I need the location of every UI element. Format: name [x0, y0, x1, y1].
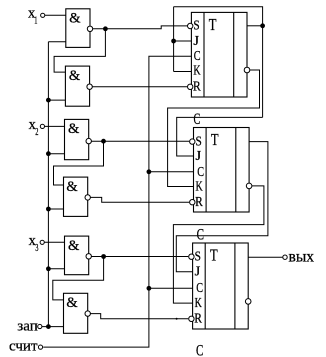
- svg-text:S: S: [193, 19, 199, 34]
- wire FF2 Qbar to FF3 K: [173, 186, 264, 303]
- wire G3 output to FF2 S: [91, 140, 189, 142]
- svg-text:J: J: [195, 265, 201, 280]
- flip-flop U3 box: [193, 243, 249, 329]
- wire G3 output cross-couple to G4 input 1: [54, 141, 104, 185]
- wire write-enable vertical bus: [47, 42, 49, 327]
- svg-text:зап: зап: [17, 318, 38, 334]
- flip-flop U1 S bubble: [188, 23, 193, 28]
- wire G3 input 2 stub: [48, 153, 64, 155]
- svg-text:T: T: [210, 246, 218, 265]
- junction clock at FF3 C: [147, 286, 152, 291]
- gate G2 NAND box: [65, 66, 89, 106]
- wire zap to G6 input 2: [42, 326, 64, 328]
- junction G5 output node: [101, 254, 106, 259]
- wire FF3 Q to output terminal: [248, 256, 282, 258]
- svg-text:1: 1: [34, 16, 37, 27]
- gate G5 output bubble: [86, 254, 91, 259]
- flip-flop U3 Qbar bubble: [245, 299, 251, 305]
- flip-flop U1 box: [191, 12, 247, 97]
- junction on bus at G5 input 2: [46, 266, 51, 271]
- node vyh output terminal: [283, 255, 287, 259]
- flip-flop U3 S bubble: [189, 254, 194, 259]
- wire clock line from schit up to FF1 C: [43, 56, 191, 347]
- flip-flop U2 box: [194, 128, 250, 213]
- junction on bus at zap wire: [46, 324, 51, 329]
- wire FF1 Qbar to FF2 K: [168, 70, 260, 187]
- wire FF1 Q output stub: [247, 25, 263, 27]
- svg-text:3: 3: [35, 243, 38, 254]
- wire FF2 Q to FF3 J: [176, 142, 268, 272]
- wire G5 input 2 stub: [48, 268, 64, 270]
- wire x3 to G5 input 1: [44, 241, 64, 243]
- gate G1 NAND box: [66, 9, 90, 48]
- wire clock branch to FF2 C: [149, 171, 194, 173]
- svg-text:2: 2: [35, 127, 38, 138]
- svg-text:J: J: [196, 149, 202, 164]
- svg-text:K: K: [196, 179, 203, 194]
- gate G6 output bubble: [85, 311, 90, 316]
- junction G1 output node: [103, 26, 108, 31]
- svg-text:&: &: [68, 121, 80, 137]
- svg-text:&: &: [66, 179, 78, 195]
- node x3 input terminal: [40, 240, 44, 244]
- svg-text:&: &: [66, 295, 78, 311]
- svg-text:вых: вых: [289, 248, 315, 265]
- wire G5 output cross-couple to G6 input 1: [53, 257, 104, 300]
- junction on bus at G2 input 2: [46, 98, 51, 103]
- svg-text:R: R: [193, 80, 201, 95]
- gate G2 output bubble: [87, 84, 92, 89]
- wire G4 output to FF2 R (step down): [90, 197, 189, 202]
- gate G6 NAND box: [64, 293, 88, 333]
- junction G3 output node: [101, 139, 106, 144]
- svg-text:&: &: [69, 68, 81, 84]
- wire Q1 down to FF2 J: [177, 117, 263, 156]
- svg-text:C: C: [197, 227, 204, 244]
- svg-text:C: C: [194, 111, 201, 128]
- junction on bus at G4 input 2: [46, 207, 51, 212]
- gate G3 output bubble: [86, 138, 91, 143]
- wire G4 input 2 stub: [48, 208, 63, 210]
- svg-text:C: C: [197, 165, 204, 180]
- svg-text:J: J: [193, 34, 199, 49]
- wire G2 output to FF1 R: [92, 86, 187, 88]
- wire FF1 J/K tie vertical: [173, 7, 175, 72]
- svg-text:K: K: [193, 64, 200, 79]
- flip-flop U1 Qbar bubble: [244, 67, 250, 73]
- junction FF1 Q node: [260, 23, 265, 28]
- gate G1 output bubble: [87, 26, 92, 31]
- node zap input terminal: [38, 324, 42, 328]
- flip-flop U2 R bubble: [190, 200, 195, 205]
- wire x1 to G1 input 1: [45, 14, 66, 16]
- wire G5 output to FF3 S: [91, 256, 188, 258]
- flip-flop U1 R bubble: [188, 84, 193, 89]
- gate G4 output bubble: [85, 195, 90, 200]
- svg-text:S: S: [196, 134, 202, 149]
- wire G1 output to FF1 S (step up): [93, 26, 187, 29]
- gate G4 NAND box: [64, 177, 88, 216]
- node schit input terminal: [38, 345, 42, 349]
- svg-text:T: T: [209, 15, 217, 34]
- gate G3 NAND box: [65, 119, 89, 159]
- junction on bus at G3 input 2: [46, 151, 51, 156]
- flip-flop U2 S bubble: [190, 139, 195, 144]
- svg-text:K: K: [195, 296, 202, 311]
- wire G1 output cross-couple to G2 input 1: [54, 29, 105, 72]
- node x1 input terminal: [41, 13, 45, 17]
- svg-text:&: &: [68, 238, 80, 254]
- wire clock branch to FF3 C: [149, 287, 193, 289]
- svg-text:R: R: [195, 195, 203, 210]
- svg-text:T: T: [211, 130, 219, 149]
- svg-text:&: &: [69, 10, 81, 26]
- flip-flop U3 R bubble: [189, 316, 194, 321]
- svg-text:C: C: [196, 281, 203, 296]
- junction at FF1 J: [171, 39, 176, 44]
- junction artifact on R3 wire: [176, 318, 178, 320]
- svg-text:C: C: [196, 342, 203, 357]
- wire FF1 J stub: [174, 40, 192, 42]
- wire x2 to G3 input 1: [45, 125, 65, 127]
- svg-text:C: C: [194, 49, 201, 64]
- wire G6 output to FF3 R (step down): [90, 314, 188, 319]
- wire FF1 K stub: [174, 71, 192, 73]
- svg-text:R: R: [194, 312, 202, 327]
- gate G5 NAND box: [65, 236, 89, 275]
- svg-text:счит: счит: [9, 339, 38, 355]
- wire G1 input 2 stub: [48, 41, 65, 43]
- wire G2 input 2 stub: [48, 99, 65, 101]
- wire top feedback Q1 to J1/K1: [174, 7, 263, 118]
- junction clock at FF2 C: [147, 169, 152, 174]
- svg-text:S: S: [195, 250, 201, 265]
- node x2 input terminal: [40, 124, 44, 128]
- flip-flop U2 Qbar bubble: [246, 183, 252, 189]
